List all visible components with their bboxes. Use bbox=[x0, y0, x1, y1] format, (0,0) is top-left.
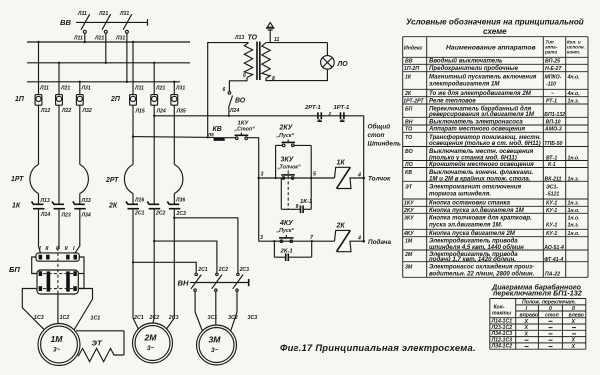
wire KV to stop button bbox=[225, 137, 236, 139]
svg-text:1К: 1К bbox=[405, 75, 412, 81]
svg-text:1н.з.: 1н.з. bbox=[568, 98, 580, 104]
svg-text:~: ~ bbox=[551, 91, 554, 97]
svg-text:ЛО: ЛО bbox=[337, 61, 349, 68]
wire BP internal link right bbox=[78, 257, 84, 289]
svg-text:2КУ: 2КУ bbox=[279, 125, 294, 132]
wire VN to motor 3M terminal 3C2 bbox=[215, 291, 217, 325]
svg-text:КВ: КВ bbox=[405, 170, 412, 176]
wire lamp bottom to secondary bbox=[266, 69, 327, 80]
svg-text:Л21: Л21 bbox=[94, 36, 104, 42]
button 4KU start (NO) bbox=[276, 220, 295, 243]
svg-text:7: 7 bbox=[310, 235, 314, 241]
legend table rows bbox=[403, 58, 580, 278]
svg-text:КУ-1: КУ-1 bbox=[546, 223, 557, 229]
svg-text:„Стоп“: „Стоп“ bbox=[234, 127, 256, 133]
svg-text:3~: 3~ bbox=[211, 347, 219, 354]
svg-text:ЭТ: ЭТ bbox=[92, 339, 103, 348]
svg-text:-110: -110 bbox=[546, 82, 556, 88]
svg-text:ФТ-41-4: ФТ-41-4 bbox=[544, 257, 563, 263]
svg-text:Кнопка остановки станка: Кнопка остановки станка bbox=[429, 200, 511, 207]
svg-text:Л15: Л15 bbox=[135, 109, 145, 115]
wire VN to motor 3M terminal 3C3 bbox=[231, 291, 237, 330]
svg-text:Л21: Л21 bbox=[60, 86, 70, 92]
svg-text:ВН: ВН bbox=[178, 279, 189, 288]
svg-text:ТО: ТО bbox=[405, 135, 412, 141]
svg-text:2К: 2К bbox=[108, 203, 118, 210]
svg-text:РТ-1: РТ-1 bbox=[546, 98, 557, 104]
svg-text:ПА-22: ПА-22 bbox=[545, 272, 560, 278]
svg-text:1М: 1М bbox=[51, 334, 64, 344]
wire BB pole1 to bus L1 bbox=[84, 33, 86, 42]
svg-text:подачи 1,7 квт, 1420 об/мин.: подачи 1,7 квт, 1420 об/мин. bbox=[429, 256, 516, 263]
svg-text:2К-1: 2К-1 bbox=[280, 249, 293, 255]
svg-text:Кронштейн местного освещения: Кронштейн местного освещения bbox=[429, 161, 534, 168]
wire KV feed from fuse L15 bbox=[132, 136, 214, 139]
svg-text:1С1: 1С1 bbox=[91, 316, 101, 322]
button 1KU Stop (NC) bbox=[234, 121, 256, 140]
svg-text:Аппарат местного освещения: Аппарат местного освещения bbox=[428, 126, 526, 133]
svg-text:Полож. переключат.: Полож. переключат. bbox=[522, 300, 576, 306]
wire transformer primary feed bbox=[208, 43, 249, 137]
svg-text:Л11: Л11 bbox=[39, 86, 49, 92]
svg-text:1н.о.: 1н.о. bbox=[568, 231, 580, 237]
electromagnet ET (brake) bbox=[76, 331, 124, 362]
svg-text:электродвигателя 1М: электродвигателя 1М bbox=[429, 81, 500, 88]
svg-text:Л34: Л34 bbox=[81, 213, 91, 219]
svg-text:2КУ: 2КУ bbox=[403, 208, 414, 214]
svg-text:влево: влево bbox=[569, 312, 584, 318]
switch VN (pump) bbox=[178, 267, 250, 292]
svg-text:конт.: конт. bbox=[567, 50, 580, 55]
svg-text:Л16: Л16 bbox=[134, 198, 144, 204]
svg-text:Индекс: Индекс bbox=[404, 46, 423, 52]
svg-text:„Толчок“: „Толчок“ bbox=[277, 165, 301, 171]
wire fuse 2P down (phase 2) bbox=[153, 105, 155, 203]
svg-text:1РТ-2РТ: 1РТ-2РТ bbox=[403, 98, 424, 104]
junction dots pump feed taps bbox=[132, 217, 176, 264]
svg-text:Л34-1С3: Л34-1С3 bbox=[491, 331, 513, 337]
bus L3 bbox=[27, 81, 180, 83]
svg-text:X: X bbox=[524, 325, 529, 331]
svg-text:1РТ: 1РТ bbox=[11, 176, 24, 183]
svg-text:1П-2П: 1П-2П bbox=[404, 66, 419, 72]
svg-text:схеме: схеме bbox=[483, 27, 507, 36]
fuse group 1P bbox=[15, 86, 92, 115]
contact 1RT-1 bbox=[328, 105, 350, 121]
svg-text:1М и 2М в крайних полож. стола: 1М и 2М в крайних полож. стола. bbox=[429, 175, 531, 182]
svg-text:X: X bbox=[571, 344, 576, 350]
svg-text:Л24: Л24 bbox=[229, 108, 239, 114]
wire phase2 bus to fuse 2P bbox=[153, 63, 155, 95]
svg-text:2С3: 2С3 bbox=[168, 315, 179, 321]
svg-text:Л24: Л24 bbox=[156, 109, 166, 115]
legend table grid bbox=[403, 37, 588, 278]
wire control right riser bbox=[363, 116, 365, 241]
svg-text:стоп: стоп bbox=[545, 312, 560, 318]
svg-text:3С1: 3С1 bbox=[208, 315, 218, 321]
svg-text:Выключатель электронасоса: Выключатель электронасоса bbox=[429, 118, 523, 125]
svg-text:ЭТ: ЭТ bbox=[405, 185, 413, 191]
drum switch diagram dashes bbox=[525, 321, 577, 346]
svg-text:Л31: Л31 bbox=[81, 86, 91, 92]
wire BP internal link left bbox=[32, 257, 37, 274]
wire 2K to motor 2M terminal 2C3 bbox=[167, 215, 175, 329]
svg-text:АО-51-4: АО-51-4 bbox=[543, 245, 564, 251]
svg-text:2С1: 2С1 bbox=[134, 211, 145, 217]
svg-text:-5121: -5121 bbox=[546, 192, 559, 198]
svg-text:„Пуск“: „Пуск“ bbox=[276, 133, 295, 139]
wire stop button to node 3 riser bbox=[248, 138, 259, 242]
wire phase3 bus to fuse 2P bbox=[173, 82, 175, 95]
coil 1K bbox=[335, 160, 392, 189]
svg-text:1н.з.: 1н.з. bbox=[568, 176, 580, 182]
switch BB (main breaker) bbox=[60, 11, 148, 42]
svg-text:X: X bbox=[524, 319, 529, 325]
bus L2 bbox=[27, 62, 190, 64]
svg-text:Магнитный пускатель включения: Магнитный пускатель включения bbox=[429, 74, 537, 81]
svg-text:2К: 2К bbox=[404, 91, 412, 97]
svg-text:БП: БП bbox=[9, 265, 20, 274]
svg-text:стоп: стоп bbox=[368, 132, 385, 139]
svg-text:1К: 1К bbox=[12, 203, 21, 210]
svg-text:2С2: 2С2 bbox=[218, 267, 229, 273]
svg-text:2С3: 2С3 bbox=[176, 211, 187, 217]
svg-text:1н.о.: 1н.о. bbox=[568, 208, 580, 214]
svg-text:2С2: 2С2 bbox=[149, 315, 160, 321]
wire BB pole2 to bus L2 bbox=[105, 33, 107, 63]
svg-text:5: 5 bbox=[313, 172, 317, 178]
motor 2M bbox=[133, 323, 173, 363]
svg-text:2П: 2П bbox=[110, 96, 121, 103]
svg-text:„Пуск“: „Пуск“ bbox=[276, 228, 295, 234]
svg-text:К-1: К-1 bbox=[548, 162, 556, 168]
svg-text:Кнопка пуска эл.двигателя 1М: Кнопка пуска эл.двигателя 1М bbox=[429, 207, 525, 214]
svg-text:2С1: 2С1 bbox=[197, 267, 208, 273]
svg-text:ТПБ-50: ТПБ-50 bbox=[544, 141, 562, 147]
svg-text:2М: 2М bbox=[144, 333, 158, 343]
svg-text:4н.о.: 4н.о. bbox=[567, 91, 580, 97]
svg-text:4КУ: 4КУ bbox=[403, 231, 414, 237]
svg-text:II: II bbox=[65, 246, 68, 252]
svg-text:4: 4 bbox=[357, 173, 361, 179]
svg-text:6: 6 bbox=[223, 87, 226, 93]
svg-text:X: X bbox=[571, 319, 576, 325]
contact 2RT-1 bbox=[304, 105, 322, 121]
svg-text:БП: БП bbox=[405, 107, 413, 113]
wire tap to VN pole2 bbox=[154, 241, 217, 273]
svg-text:ВВ: ВВ bbox=[60, 18, 71, 27]
wire 2K to motor 2M terminal 2C1 bbox=[133, 215, 138, 329]
svg-text:Л11: Л11 bbox=[77, 11, 87, 17]
svg-text:3С2: 3С2 bbox=[228, 315, 238, 321]
svg-text:3С3: 3С3 bbox=[248, 315, 258, 321]
svg-text:Л36: Л36 bbox=[175, 198, 185, 204]
wire VN to motor 3M terminal 3C1 bbox=[195, 291, 202, 330]
svg-text:КУ-1: КУ-1 bbox=[546, 208, 557, 214]
svg-text:Л23: Л23 bbox=[61, 213, 71, 219]
svg-text:X: X bbox=[524, 331, 529, 337]
button 3KU jog bbox=[277, 157, 301, 180]
svg-text:2РТ-1: 2РТ-1 bbox=[304, 105, 321, 111]
svg-text:Л14-1С1: Л14-1С1 bbox=[491, 319, 513, 325]
branch 2KU start button bbox=[274, 125, 312, 180]
coil 2K bbox=[335, 223, 392, 252]
svg-text:Л31: Л31 bbox=[175, 86, 185, 92]
wire tap to VN pole3 bbox=[174, 218, 238, 273]
svg-text:4: 4 bbox=[357, 236, 361, 242]
svg-text:4н.о.: 4н.о. bbox=[567, 75, 580, 81]
svg-text:2М: 2М bbox=[404, 252, 413, 258]
wire 1K contacts down to drum switch BP bbox=[39, 215, 41, 253]
svg-text:ВТ-1: ВТ-1 bbox=[546, 155, 557, 161]
svg-text:вправо: вправо bbox=[520, 312, 539, 318]
svg-text:КУ-1: КУ-1 bbox=[546, 231, 557, 237]
fuse group 2P bbox=[110, 86, 186, 115]
svg-text:Условные обозначения на принци: Условные обозначения на принципиальной bbox=[406, 18, 584, 27]
svg-text:Л22: Л22 bbox=[61, 108, 71, 114]
svg-text:1н.о.: 1н.о. bbox=[568, 155, 580, 161]
svg-text:1К-1: 1К-1 bbox=[300, 199, 312, 205]
svg-text:0: 0 bbox=[549, 306, 552, 312]
svg-text:2: 2 bbox=[328, 111, 332, 116]
svg-text:1М: 1М bbox=[405, 239, 413, 245]
svg-text:Л12: Л12 bbox=[40, 108, 50, 114]
svg-text:Л13: Л13 bbox=[40, 198, 50, 204]
svg-text:водительн. 22 л/мин, 2800 об/м: водительн. 22 л/мин, 2800 об/мин. bbox=[429, 271, 535, 278]
svg-text:3: 3 bbox=[261, 172, 264, 178]
svg-text:ВП-10: ВП-10 bbox=[546, 119, 561, 125]
svg-text:Н-Е-27: Н-Е-27 bbox=[545, 66, 563, 72]
rung feed: node3 to coil 2K bbox=[259, 240, 335, 242]
svg-text:освещения (только в ст. мод. 6: освещения (только в ст. мод. 6Н11) bbox=[429, 140, 541, 147]
svg-text:II: II bbox=[45, 246, 48, 252]
wire tap to VN pole1 bbox=[133, 262, 196, 273]
limit switch KV bbox=[207, 126, 225, 141]
svg-text:X: X bbox=[571, 338, 576, 344]
svg-text:2РТ: 2РТ bbox=[105, 177, 119, 184]
svg-text:I: I bbox=[73, 246, 75, 252]
svg-text:Реле тепловое: Реле тепловое bbox=[429, 97, 476, 104]
svg-text:Л11: Л11 bbox=[134, 86, 144, 92]
svg-text:Наименование аппаратов: Наименование аппаратов bbox=[446, 45, 536, 52]
svg-text:КВ: КВ bbox=[213, 126, 222, 133]
svg-text:Л11: Л11 bbox=[73, 36, 83, 42]
svg-text:3КУ: 3КУ bbox=[281, 157, 295, 164]
wire BP to motor 1M terminal 1C3 bbox=[22, 289, 44, 330]
svg-text:Л21: Л21 bbox=[155, 86, 165, 92]
motor 3M bbox=[197, 325, 237, 365]
svg-text:3КУ: 3КУ bbox=[404, 216, 414, 222]
svg-text:1н.з.: 1н.з. bbox=[568, 201, 580, 207]
ground bbox=[266, 23, 275, 43]
svg-text:То же для электродвигателя 2М: То же для электродвигателя 2М bbox=[429, 90, 532, 97]
wire BP to motor 1M terminal 1C2 bbox=[57, 294, 59, 324]
control bus wire bbox=[154, 115, 364, 117]
svg-text:1П: 1П bbox=[15, 96, 25, 103]
svg-text:4КУ: 4КУ bbox=[279, 220, 294, 227]
svg-text:1К: 1К bbox=[337, 160, 346, 167]
svg-text:2С2: 2С2 bbox=[155, 211, 166, 217]
svg-text:такты: такты bbox=[492, 311, 512, 317]
svg-text:КУ-1: КУ-1 bbox=[546, 201, 557, 207]
svg-text:3М: 3М bbox=[405, 264, 413, 270]
rung jog: node3 to coil 1K bbox=[259, 177, 335, 179]
svg-text:ТО: ТО bbox=[248, 35, 258, 42]
svg-text:9: 9 bbox=[296, 204, 299, 210]
transformer TO bbox=[234, 35, 279, 83]
svg-text:1РТ-1: 1РТ-1 bbox=[334, 105, 350, 111]
svg-text:Электронасос охлаждения произ-: Электронасос охлаждения произ- bbox=[429, 263, 534, 270]
wire 2RT to contactor 2K contacts bbox=[132, 194, 134, 204]
svg-text:Л34-1С2: Л34-1С2 bbox=[491, 344, 513, 350]
svg-text:2С1: 2С1 bbox=[133, 315, 144, 321]
wire fuse 2P down (phase 3) bbox=[173, 105, 175, 164]
svg-text:Электромагнит отключения: Электромагнит отключения bbox=[429, 184, 521, 191]
svg-text:Л5: Л5 bbox=[207, 132, 214, 137]
junction dots on buses bbox=[37, 41, 175, 83]
svg-text:шпинделя 4,5 квт, 1440 об/мин: шпинделя 4,5 квт, 1440 об/мин bbox=[429, 244, 524, 251]
wire fuse 2P down (phase 1) bbox=[132, 105, 134, 164]
svg-text:3~: 3~ bbox=[53, 347, 61, 354]
wire fuse 1P to thermal 1RT bbox=[38, 105, 40, 164]
svg-text:3: 3 bbox=[260, 235, 263, 241]
wire phase2 bus to fuse 1P bbox=[58, 63, 60, 95]
wire transformer primary bottom to VO bbox=[229, 78, 247, 92]
svg-text:пуска эл.двигателя 1М.: пуска эл.двигателя 1М. bbox=[429, 222, 503, 229]
svg-text:1н.о.: 1н.о. bbox=[568, 216, 580, 222]
motor 1M bbox=[38, 324, 80, 366]
svg-text:ВО: ВО bbox=[405, 149, 413, 155]
wire BB pole3 to bus L3 bbox=[126, 33, 128, 82]
svg-text:1н.з.: 1н.з. bbox=[568, 223, 580, 229]
svg-text:Л32: Л32 bbox=[82, 108, 92, 114]
svg-text:Шпиндель: Шпиндель bbox=[368, 140, 401, 148]
node label Obshchiy stop bbox=[368, 123, 401, 148]
svg-text:переключателя БП1-132: переключателя БП1-132 bbox=[493, 289, 582, 298]
svg-text:Общий: Общий bbox=[368, 123, 391, 131]
svg-text:Л31: Л31 bbox=[115, 36, 125, 42]
svg-text:6: 6 bbox=[243, 73, 246, 79]
svg-text:Кнопка пуска двигателя 2М: Кнопка пуска двигателя 2М bbox=[429, 230, 516, 237]
holding branch with contact 2K-1 bbox=[273, 240, 313, 261]
mechanical link dashed bbox=[287, 171, 289, 210]
contactor 1K main contacts bbox=[12, 198, 91, 219]
svg-text:Л31: Л31 bbox=[119, 11, 129, 17]
svg-text:ВО: ВО bbox=[235, 98, 246, 105]
svg-text:Л21: Л21 bbox=[98, 11, 108, 17]
svg-text:3М: 3М bbox=[209, 335, 222, 345]
thermal relay 2RT heaters bbox=[105, 165, 183, 194]
switch VO bbox=[223, 87, 246, 116]
svg-text:ТО: ТО bbox=[405, 127, 412, 133]
wire phase1 bus to fuse 1P bbox=[38, 42, 40, 95]
svg-text:тормоза шпинделя.: тормоза шпинделя. bbox=[429, 191, 491, 198]
svg-text:ЭС1-: ЭС1- bbox=[546, 185, 558, 191]
svg-text:ВК-211: ВК-211 bbox=[545, 176, 562, 182]
svg-text:Л14: Л14 bbox=[40, 212, 50, 218]
contactor 2K main contacts bbox=[108, 198, 186, 218]
svg-text:АМО-3: АМО-3 bbox=[544, 127, 562, 133]
svg-text:Л23-1С2: Л23-1С2 bbox=[491, 325, 513, 331]
svg-text:ВН: ВН bbox=[405, 119, 413, 125]
svg-text:Л13: Л13 bbox=[234, 35, 244, 41]
svg-text:ВП-25: ВП-25 bbox=[545, 59, 560, 65]
wire 1RT to contactor 1K contacts bbox=[38, 194, 40, 204]
svg-text:Вводный выключатель: Вводный выключатель bbox=[429, 58, 503, 65]
svg-text:2К: 2К bbox=[336, 223, 346, 230]
drum switch diagram table grid bbox=[490, 299, 586, 350]
svg-text:Л35: Л35 bbox=[176, 109, 186, 115]
drum switch diagram table text bbox=[491, 300, 584, 350]
svg-text:БП1-132: БП1-132 bbox=[544, 112, 565, 118]
wire phase3 bus to fuse 1P bbox=[79, 82, 81, 95]
svg-text:I: I bbox=[39, 246, 41, 252]
svg-text:Предохранители пробочные: Предохранители пробочные bbox=[429, 65, 519, 72]
svg-text:рата: рата bbox=[544, 50, 557, 55]
svg-text:Толчок: Толчок bbox=[368, 176, 391, 183]
svg-text:1С3: 1С3 bbox=[34, 315, 44, 321]
svg-text:1КУ: 1КУ bbox=[404, 201, 414, 207]
svg-text:Фиг.17 Принципиальная электр: Фиг.17 Принципиальная электросхема. bbox=[280, 342, 476, 353]
wire transformer secondary top to lamp bbox=[266, 42, 327, 44]
wire phase1 bus to fuse 2P bbox=[132, 42, 134, 95]
svg-text:1С2: 1С2 bbox=[60, 315, 70, 321]
drum switch BP bbox=[9, 246, 79, 296]
svg-text:2С3: 2С3 bbox=[239, 267, 250, 273]
svg-text:ЛО: ЛО bbox=[404, 162, 413, 168]
wire BP to motor 1M terminal 1C1 bbox=[74, 289, 93, 331]
holding branch with contact 1K-1 bbox=[281, 178, 312, 213]
wire 2K to motor 2M terminal 2C2 bbox=[153, 215, 154, 323]
svg-text:Подача: Подача bbox=[368, 238, 391, 246]
svg-text:3~: 3~ bbox=[147, 345, 155, 352]
svg-text:ВВ: ВВ bbox=[405, 59, 413, 65]
svg-text:МПКО-: МПКО- bbox=[545, 75, 562, 81]
svg-text:Л12-1С3: Л12-1С3 bbox=[491, 337, 513, 343]
svg-text:Кнопка толчковая для кратковр.: Кнопка толчковая для кратковр. bbox=[429, 215, 532, 222]
bus L1 bbox=[27, 41, 190, 43]
svg-text:Л33: Л33 bbox=[81, 198, 91, 204]
lamp LO bbox=[321, 56, 349, 70]
legend table header bbox=[404, 40, 585, 55]
thermal relay 1RT heaters bbox=[11, 165, 88, 194]
svg-text:реверсирования эл.двигателя 1М: реверсирования эл.двигателя 1М bbox=[428, 111, 535, 118]
